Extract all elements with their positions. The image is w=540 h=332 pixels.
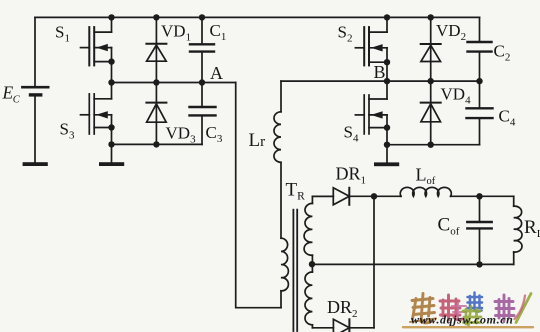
transformer TR secondary [304,196,312,327]
svg-text:Lr: Lr [249,130,266,151]
node: S2 drain on rail [384,14,390,20]
watermark char 3 [463,307,481,326]
watermark char 4 [495,295,514,321]
diode VD2 [421,17,441,81]
ground S3 [99,144,124,166]
watermark underline [403,326,533,328]
node junction Cof top [476,193,482,199]
capacitor C1 [190,17,214,82]
capacitor Cof [467,196,491,264]
wire left leg bottom [112,143,203,145]
inductor Lr [274,81,281,238]
transistor S2 [355,17,390,81]
svg-text:B: B [374,62,386,82]
wire node A to primary bottom [236,83,281,308]
node: VD1 top on rail [153,14,159,20]
watermark char 1 [410,294,436,323]
diode VD1 [146,17,166,82]
transistor S3 [81,83,115,145]
transformer TR primary [281,238,288,308]
wire Lof to Cof node [451,195,480,197]
svg-text:www.dqjsw.com.cn: www.dqjsw.com.cn [411,313,513,327]
resistor RL [514,196,522,264]
wire DR1 to junction [349,195,374,197]
wire secondary bottom [312,327,333,329]
capacitor C3 [190,83,216,145]
node junction S1-S3 [108,79,114,85]
node junction VD4 bottom [428,142,434,148]
wire Cof node to RL [480,195,514,197]
node A [199,79,205,85]
node junction S4 source [384,142,390,148]
node junction S3 source [108,141,114,147]
diode DR1 [333,188,349,205]
capacitor C4 [467,81,493,145]
wire output return (center tap) [312,263,514,265]
node: VD2 top on rail [428,14,434,20]
wire top rail [35,16,480,18]
diode DR2 [333,319,349,332]
transformer core [293,210,297,331]
watermark char 4 slash [516,294,531,323]
wire secondary top [312,195,333,197]
watermark char 2 [440,295,462,320]
capacitor C2 [468,17,492,81]
node: center tap [309,261,315,267]
wire DR2 cathode riser [373,196,375,327]
transistor S4 [355,81,390,145]
diode VD3 [146,83,166,145]
node junction C2-C4 [476,78,482,84]
battery EC [22,17,48,166]
svg-text:A: A [210,63,223,83]
ground S4 [374,145,399,167]
wire junction to Lof [374,195,401,197]
diode VD4 [421,81,441,145]
node: S1 drain on rail [108,14,114,20]
wire right leg bottom [387,144,480,146]
transistor S1 [81,17,115,82]
watermark small magenta char [452,303,466,318]
node: C1 top on rail [199,14,205,20]
node junction DR1-DR2-Lof [371,193,377,199]
node junction Cof bottom [476,261,482,267]
node junction VD2-VD4 [428,78,434,84]
node junction VD3 bottom [153,141,159,147]
wire DR2 to riser [349,327,374,329]
wire node A [112,82,236,84]
wire node B [281,80,480,82]
inductor Lof [400,187,451,196]
node junction VD1-VD3 [153,79,159,85]
node B [384,78,390,84]
watermark small blue char [468,293,483,312]
watermark logo [403,293,533,328]
